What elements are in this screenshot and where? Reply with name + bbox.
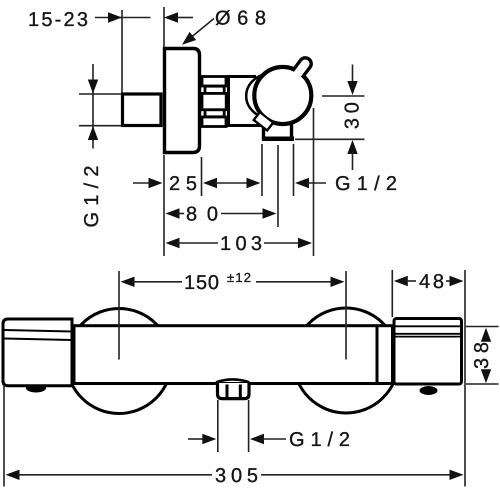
svg-text:15-23: 15-23 <box>28 9 88 31</box>
fitting dim right stem <box>262 438 286 440</box>
svg-text:G1/2: G1/2 <box>81 166 103 228</box>
dimension 80 left arrowhead <box>166 208 180 218</box>
knob interior mask <box>257 69 309 121</box>
dimension 30 lower arrowhead <box>347 140 357 154</box>
right handle rim line 1 <box>396 325 461 327</box>
dimension 305 left arrowhead <box>6 470 20 480</box>
extension line far-left x=4 <box>3 385 5 487</box>
supply pipe stub <box>123 94 162 126</box>
fitting inner line right <box>239 385 242 399</box>
fitting dim left stem <box>188 438 204 440</box>
dimension 103 right stem <box>264 242 300 244</box>
dimension 305 left stem <box>18 474 212 476</box>
svg-text:103: 103 <box>220 233 262 255</box>
extension line fitting-left <box>217 400 219 452</box>
extension line flange-left upper x=164 <box>163 7 165 47</box>
left mounting circle <box>67 309 172 414</box>
valve body top edge <box>227 75 256 78</box>
hose outlet fitting G1/2 <box>218 383 250 399</box>
dimension 25 right arrowhead <box>203 178 217 188</box>
bar-collar joint line <box>376 327 379 382</box>
dimension 30 upper stem <box>352 65 354 84</box>
dimension 25 left arrowhead <box>149 178 163 188</box>
extension line flange-right x=201.5 <box>201 157 203 196</box>
dimension 80 left stem <box>177 213 184 215</box>
handle knob circle <box>254 67 311 124</box>
valve body left edge <box>227 75 230 127</box>
fitting inner line left <box>226 385 229 399</box>
leader arrowhead O68 <box>182 32 196 45</box>
dimension 103 right arrowhead <box>298 238 312 248</box>
dimension 15-23 left arrowhead <box>108 12 122 22</box>
stub top extension line <box>79 93 121 95</box>
left cap screw dome <box>26 384 46 393</box>
extension line foot-center x=278 <box>277 145 279 227</box>
union nut band 4 <box>205 110 224 117</box>
dimension 38 bottom arrowhead <box>481 369 491 383</box>
svg-text:G1/2: G1/2 <box>289 429 350 451</box>
knob bottom tab <box>254 112 274 130</box>
dimension 150 right arrowhead <box>331 277 345 287</box>
dimension 103 left arrowhead <box>166 238 180 248</box>
leader line O68 <box>186 19 214 42</box>
svg-text:G1/2: G1/2 <box>335 173 397 195</box>
right handle body <box>394 319 462 385</box>
extension line fitting-right <box>248 400 250 452</box>
svg-text:305: 305 <box>215 465 258 487</box>
extension line flange-left lower x=164 <box>163 155 165 256</box>
stub top arrowhead <box>88 80 98 94</box>
dimension 305 right stem <box>261 474 452 476</box>
left end cap <box>3 319 72 386</box>
stub bottom extension line <box>79 125 121 127</box>
stub bottom arrowhead <box>88 126 98 140</box>
dimension 150 left arrowhead <box>121 277 135 287</box>
dimension 80 right arrowhead <box>263 208 277 218</box>
dimension stem between <box>215 182 248 184</box>
right handle rim line 3 <box>396 336 461 338</box>
extension line wall-left x=122 <box>121 10 123 93</box>
wall flange escutcheon <box>165 49 200 153</box>
extension line right x=465 <box>464 270 466 487</box>
arrowhead toward foot-left <box>247 178 261 188</box>
outlet foot bottom face <box>262 136 294 141</box>
valve body fill <box>229 77 259 126</box>
dimension 150 left stem <box>133 281 182 283</box>
stub vertical dimension line <box>92 64 94 149</box>
svg-text:±12: ±12 <box>227 270 251 285</box>
outlet foot <box>264 120 292 139</box>
left cap rim line 2 <box>5 339 73 341</box>
knob ear lug <box>292 58 311 79</box>
dimension 80 right stem <box>221 213 265 215</box>
mixer bar <box>74 326 393 384</box>
right handle screw dome <box>420 386 438 395</box>
dimension 150 right stem <box>256 281 332 283</box>
union nut band 5 <box>202 117 226 127</box>
dimension 38 bottom extension line <box>466 383 499 385</box>
left center line <box>118 271 120 360</box>
union nut band 2 <box>205 86 224 93</box>
dimension 48 right stem <box>446 280 451 282</box>
extension line handle-left x=392.3 <box>391 270 393 317</box>
fitting dim right arrowhead <box>250 434 264 444</box>
right mounting circle <box>294 308 399 413</box>
dimension 48 left stem <box>406 280 416 282</box>
dimension 30 lower extension line <box>295 138 365 140</box>
right center line <box>345 271 347 360</box>
stem to G1/2 label <box>307 182 326 184</box>
arrowhead toward foot-right <box>295 178 309 188</box>
hose outlet fitting dome <box>216 379 249 382</box>
union nut band 1 <box>202 77 226 87</box>
dimension 30 upper arrowhead <box>347 81 357 95</box>
extension line knob-right x=313.5 <box>313 108 315 256</box>
dimension 38 top arrowhead <box>481 328 491 342</box>
dimension 30 lower stem <box>352 152 354 170</box>
dimension 48 right arrowhead <box>450 276 464 286</box>
svg-text:Ø68: Ø68 <box>215 8 266 30</box>
dimension 15-23 left stem <box>95 17 151 19</box>
right handle rim line 2 <box>396 333 461 335</box>
left cap rim line 1 <box>5 330 73 332</box>
fitting dim left arrowhead <box>202 434 216 444</box>
valve body bottom edge <box>227 124 264 127</box>
dimension 25 left stem <box>133 182 151 184</box>
extension line foot-right x=293.5 <box>293 144 295 196</box>
dimension 305 right arrowhead <box>450 470 464 480</box>
extension line foot-left x=262 <box>261 144 263 196</box>
knob back rim <box>246 73 300 119</box>
dimension 48 left arrowhead <box>394 276 408 286</box>
svg-text:150: 150 <box>184 272 219 294</box>
union nut band 3 <box>202 93 226 109</box>
dimension 103 left stem <box>177 242 218 244</box>
dimension 15-23 right arrowhead <box>164 12 178 22</box>
dimension 30 upper extension line <box>322 95 365 97</box>
dimension 38 top extension line <box>466 326 499 328</box>
dimension 15-23 right stem <box>177 17 193 19</box>
